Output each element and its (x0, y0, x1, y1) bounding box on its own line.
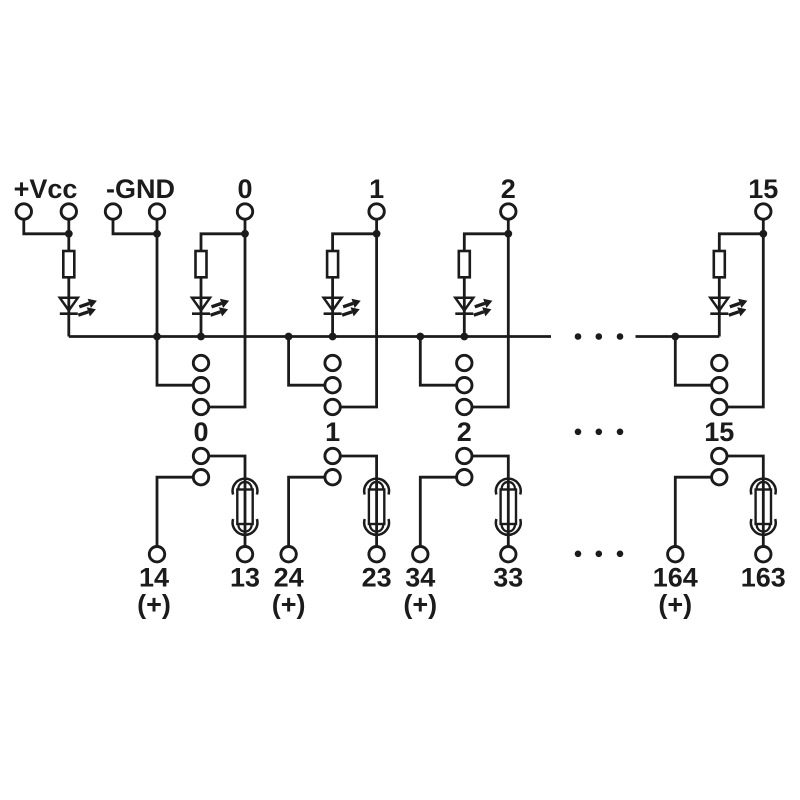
terminal -GND pin 2 (149, 204, 164, 219)
LED D2 (455, 298, 492, 317)
svg-text:0: 0 (193, 417, 208, 447)
junction LED D0 on GND bus (197, 333, 205, 341)
terminal 24 (281, 547, 296, 562)
svg-text:1: 1 (325, 417, 340, 447)
fuse F0 (233, 479, 258, 535)
wire input 2 down to relay contact (472, 234, 508, 407)
wire R1 to GND bus through LED D1 (331, 277, 334, 336)
svg-text:24: 24 (274, 563, 304, 593)
relay socket contact 2 top (457, 355, 472, 370)
wire GND bus to relay contact 2 (420, 337, 456, 386)
wire contact 0 to fuse F0 (209, 456, 245, 547)
terminal 164 (668, 547, 683, 562)
wire contact 2 to fuse F2 (472, 456, 508, 547)
relay output contact 0 upper (193, 448, 208, 463)
svg-text:+Vcc: +Vcc (14, 174, 78, 204)
wire input 2 to resistor R2 (464, 234, 508, 251)
wire input 0 to resistor R0 (201, 234, 245, 251)
fuse F1 (364, 479, 389, 535)
wire input 1 to resistor R1 (333, 234, 377, 251)
relay socket contact 2 middle (457, 378, 472, 393)
junction node input 15 (759, 230, 767, 238)
terminal 23 (369, 547, 384, 562)
resistor RV (power indicator) (63, 251, 74, 277)
svg-text:23: 23 (362, 563, 392, 593)
junction node input 0 (241, 230, 249, 238)
relay socket contact 0 middle (193, 378, 208, 393)
wire input 15 stub (762, 219, 765, 234)
relay socket contact 15 top (712, 355, 727, 370)
LED D15 (710, 298, 747, 317)
wire -GND down to channel 0 contact (157, 234, 193, 385)
relay output contact 1 lower (325, 470, 340, 485)
relay socket contact 1 top (325, 355, 340, 370)
wire contact 15 to terminal 164 (675, 477, 711, 546)
svg-text:33: 33 (493, 563, 523, 593)
wire contact 1 to terminal 24 (289, 477, 325, 546)
svg-text:1: 1 (369, 174, 384, 204)
wire GND bus to relay contact 15 (675, 337, 711, 386)
wire contact 2 to terminal 34 (420, 477, 456, 546)
wire input 0 down to relay contact (209, 234, 245, 407)
wire input 0 stub (244, 219, 247, 234)
wire GND bus left segment (69, 335, 551, 338)
svg-text:(+): (+) (403, 590, 437, 620)
wire input 15 down to relay contact (727, 234, 763, 407)
resistor R1 (327, 251, 338, 277)
junction LED D2 on GND bus (460, 333, 468, 341)
wire -GND pin1 to pin2 (113, 219, 157, 234)
relay output contact 0 lower (193, 470, 208, 485)
terminal 14 (149, 547, 164, 562)
fuse F15 (751, 479, 776, 535)
svg-text:164: 164 (653, 563, 698, 593)
wire R2 to GND bus through LED D2 (463, 277, 466, 336)
junction -GND on GND bus (153, 333, 161, 341)
wire contact 15 to fuse F15 (727, 456, 763, 547)
svg-text:(+): (+) (137, 590, 171, 620)
terminal input 2 (501, 204, 516, 219)
LED DV (power indicator) (60, 298, 97, 317)
wire +Vcc pin2 stub (67, 219, 70, 234)
svg-text:163: 163 (741, 563, 786, 593)
svg-text:14: 14 (139, 563, 169, 593)
wire input 1 stub (375, 219, 378, 234)
terminal input 15 (756, 204, 771, 219)
svg-text:-GND: -GND (106, 174, 175, 204)
terminal 13 (237, 547, 252, 562)
wire R15 to GND bus through LED D15 (718, 277, 721, 336)
wire R0 to GND bus through LED D0 (200, 277, 203, 336)
wire contact 0 to terminal 14 (157, 477, 193, 546)
svg-text:2: 2 (457, 417, 472, 447)
terminal 33 (501, 547, 516, 562)
LED D0 (192, 298, 229, 317)
junction node input 1 (373, 230, 381, 238)
junction +Vcc node (65, 230, 73, 238)
junction channel 2 branch on GND bus (416, 333, 424, 341)
junction -GND node (153, 230, 161, 238)
svg-text:2: 2 (501, 174, 516, 204)
terminal 34 (413, 547, 428, 562)
junction channel 15 branch on GND bus (671, 333, 679, 341)
terminal +Vcc pin 1 (16, 204, 31, 219)
relay output contact 15 lower (712, 470, 727, 485)
wire -GND pin2 stub (156, 219, 159, 234)
svg-text:13: 13 (230, 563, 260, 593)
junction channel 1 branch on GND bus (285, 333, 293, 341)
terminal +Vcc pin 2 (61, 204, 76, 219)
wire contact 1 to fuse F1 (340, 456, 376, 547)
resistor R0 (196, 251, 207, 277)
ellipsis dots terminal row (575, 551, 582, 558)
svg-text:34: 34 (405, 563, 435, 593)
relay output contact 1 upper (325, 448, 340, 463)
relay socket contact 0 bottom (193, 399, 208, 414)
svg-text:15: 15 (748, 174, 778, 204)
relay socket contact 15 bottom (712, 399, 727, 414)
svg-text:0: 0 (237, 174, 252, 204)
wire +Vcc pin1 to pin2 (24, 219, 69, 234)
relay output contact 2 upper (457, 448, 472, 463)
svg-text:(+): (+) (272, 590, 306, 620)
terminal 163 (756, 547, 771, 562)
terminal input 0 (237, 204, 252, 219)
terminal -GND pin 1 (105, 204, 120, 219)
relay socket contact 1 bottom (325, 399, 340, 414)
relay socket contact 1 middle (325, 378, 340, 393)
relay socket contact 0 top (193, 355, 208, 370)
wire +Vcc to resistor RV (67, 234, 70, 251)
terminal input 1 (369, 204, 384, 219)
junction node input 2 (504, 230, 512, 238)
wire GND bus to relay contact 1 (289, 337, 325, 386)
wire GND bus right segment (636, 335, 720, 338)
svg-text:(+): (+) (658, 590, 692, 620)
ellipsis dots on GND bus (575, 333, 582, 340)
LED D1 (324, 298, 361, 317)
resistor R15 (714, 251, 725, 277)
svg-text:15: 15 (704, 417, 734, 447)
wire RV to bus through LED DV (67, 277, 70, 336)
resistor R2 (459, 251, 470, 277)
ellipsis dots relay row (575, 429, 582, 436)
wire input 1 down to relay contact (340, 234, 376, 407)
wire input 15 to resistor R15 (719, 234, 763, 251)
fuse F2 (496, 479, 521, 535)
relay socket contact 2 bottom (457, 399, 472, 414)
junction LED D1 on GND bus (329, 333, 337, 341)
relay output contact 2 lower (457, 470, 472, 485)
relay socket contact 15 middle (712, 378, 727, 393)
wire input 2 stub (507, 219, 510, 234)
relay output contact 15 upper (712, 448, 727, 463)
